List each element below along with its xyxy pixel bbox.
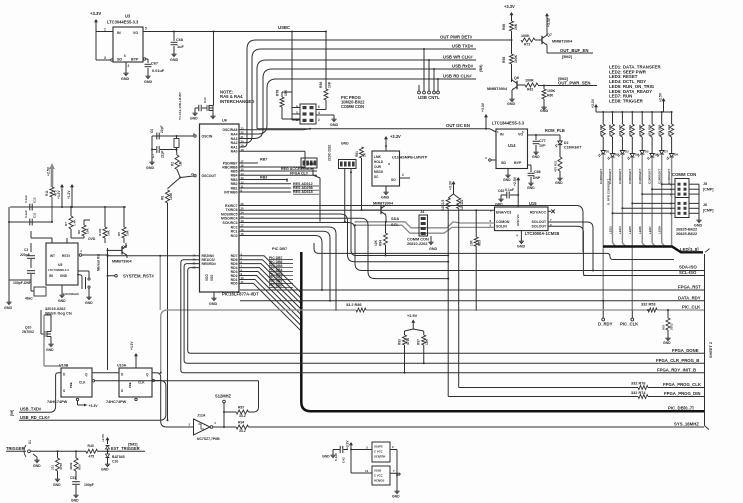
svg-text:HOLD: HOLD [374,160,384,164]
wire VO output [143,31,326,33]
svg-text:+3.3V: +3.3V [57,190,61,199]
ground Q6 emitter [507,90,515,106]
text PIC_DB label [668,405,694,410]
wires COMM CON right side [676,182,713,236]
svg-text:21: 21 [191,172,195,176]
wire left gnd rail [4,207,12,310]
svg-text:R11: R11 [45,190,49,196]
svg-text:U16PC: U16PC [374,445,383,449]
wire corner OUT_I2C [0,0,1,1]
svg-text:+3.3V: +3.3V [481,102,485,112]
wire RB3 stub [239,176,288,183]
svg-text:R66: R66 [502,24,506,30]
svg-text:475 R21: 475 R21 [554,160,558,172]
power +1.2V left [67,184,74,208]
svg-text:100pF-DNP: 100pF-DNP [13,281,32,285]
svg-text:D_RFB C190KEKT: D_RFB C190KEKT [607,179,611,205]
node S12MHZ [215,394,232,429]
svg-text:10K: 10K [425,338,429,345]
resistor pullup 10K U15 [470,210,482,311]
svg-text:0.1uF: 0.1uF [505,188,514,192]
wire OSC2 net [152,149,196,178]
svg-text:0.1uF: 0.1uF [24,195,28,203]
wire ENA [0,0,1,1]
transistor Q5 with cap [190,97,216,120]
wire SYS_16MHZ [249,422,705,428]
svg-text:33.2: 33.2 [239,414,246,418]
wire U13 pin2 [400,173,411,178]
svg-text:D8: D8 [674,153,678,157]
svg-text:332 R53: 332 R53 [641,303,656,307]
resistor R2 [171,150,183,170]
wire FPGA_RST [240,285,704,290]
resistor R55 2002 [662,310,674,345]
svg-text:WT: WT [50,254,55,258]
wire SYSTEM_RST# [107,248,200,370]
svg-text:LTC3000A-1CMS8: LTC3000A-1CMS8 [525,231,560,236]
resistor R21 475 [554,157,564,185]
svg-text:2: 2 [402,173,404,177]
svg-text:D5: D5 [645,150,649,154]
svg-text:6: 6 [318,105,320,109]
svg-text:C77: C77 [539,139,546,143]
svg-text:USB_RD_CLK#: USB_RD_CLK# [20,415,50,420]
power +3.3V dual pullup [448,180,459,198]
wire Q7 emitter OUT_BUF_EN [547,45,593,59]
svg-text:R93: R93 [398,339,402,345]
wire Q10 drain up [44,315,61,366]
svg-text:FPGA CL#: FPGA CL# [290,171,308,175]
resistor R62 100R [517,79,545,92]
text LED wire names [608,226,661,234]
svg-text:D2: D2 [564,141,568,145]
capacitor C11 [24,210,37,225]
svg-text:6: 6 [124,54,126,58]
svg-text:LED4: LED4 [618,226,622,234]
resistor R81 [355,147,367,210]
svg-text:GND: GND [555,181,563,185]
resistor R87 loop [224,381,259,418]
svg-text:26825-B622: 26825-B622 [676,228,697,232]
svg-text:SD: SD [117,58,122,62]
svg-text:VDD: VDD [205,274,209,281]
diode BAT54S top [106,446,110,452]
connector COMM CON J5/J6 [672,172,696,218]
connector 22SC-2262 A [301,158,317,168]
svg-text:22pF: 22pF [160,125,164,133]
svg-text:475 R26: 475 R26 [608,124,612,136]
power +2.5V thick [47,163,55,187]
svg-text:U5: U5 [58,263,62,267]
svg-text:26825-B622: 26825-B622 [676,232,697,236]
svg-text:10K1/2: 10K1/2 [460,199,464,210]
connector X1 TRIGGER [6,440,32,457]
svg-text:R7: R7 [64,222,68,226]
svg-text:RB6: RB6 [307,162,314,166]
svg-text:GND: GND [121,77,129,81]
svg-text:NC7SZ7,7P6B: NC7SZ7,7P6B [197,437,220,441]
svg-text:IN: IN [500,133,504,137]
svg-text:14: 14 [365,469,369,473]
transistor Q8 [107,243,133,264]
capacitor 100pF DNP [9,271,35,285]
wire FPGA_PROG_DIN [448,391,704,397]
svg-text:LED[3..8]: LED[3..8] [680,247,699,252]
svg-text:+3.3V: +3.3V [130,341,134,350]
capacitor C66 DNP [527,165,541,190]
text PIC PROG [341,95,365,109]
wire PIC PROG left pins [292,92,300,120]
connector J4 [407,210,437,251]
svg-text:RE0/RD#: RE0/RD# [202,262,216,266]
svg-text:GND: GND [209,302,217,306]
resistor R86 [346,303,366,312]
resistor R11 [45,187,58,223]
microcontroller U6 pin numbers [191,126,244,284]
svg-text:PIC DB7: PIC DB7 [272,247,287,251]
wire left rail 207 [10,206,126,208]
svg-text:FPGA_DONE: FPGA_DONE [672,348,699,353]
svg-text:100K: 100K [547,89,556,93]
power +2.5V LED rail [659,92,666,112]
svg-text:SCNTRK: SCNTRK [374,455,386,459]
resistor R100 [98,206,111,243]
wire RB6 stub [239,162,314,167]
resistor R58 [502,40,518,82]
svg-text:LED8: LED8 [658,226,662,234]
wire U5 rst out [79,249,108,256]
svg-text:RA0: RA0 [231,150,238,154]
svg-text:R8: R8 [161,196,165,200]
svg-text:VSS: VSS [210,274,214,281]
resistor R40 [86,444,98,459]
ground U5 [58,275,82,303]
wire Q6 collector [511,64,514,80]
svg-text:ENA/VC3: ENA/VC3 [496,211,511,215]
wire RB7 stub [239,158,267,164]
power +3.3V U14 [481,102,488,130]
wire U10B CLK loop [95,380,259,382]
capacitor C62 [495,188,518,207]
svg-text:PRE: PRE [69,382,73,388]
svg-text:SDA-ISO: SDA-ISO [679,264,697,269]
svg-text:OSCOUT: OSCOUT [202,174,217,178]
svg-text:C42: C42 [342,457,346,463]
svg-text:C66: C66 [534,170,541,174]
svg-text:R6: R6 [77,230,81,234]
node USB CNTL pins [418,91,440,100]
capacitor C6 [150,125,164,139]
svg-text:SCL-ISO: SCL-ISO [679,270,697,275]
svg-text:SC: SC [374,175,379,179]
svg-text:GND: GND [330,123,338,127]
svg-text:FPGA_PROG_CLK: FPGA_PROG_CLK [663,382,702,387]
svg-text:U10A: U10A [117,364,127,368]
svg-text:COMM CON: COMM CON [407,238,429,242]
svg-text:+1.2V: +1.2V [67,190,71,199]
capacitor C12 [24,195,37,210]
resistor R50 trig [69,451,82,480]
power +2.2V LED rail [591,98,598,112]
microcontroller U6 pin labels [202,128,238,286]
svg-text:J11A: J11A [197,414,206,418]
svg-text:R84: R84 [379,240,383,246]
capacitor C7 [151,146,165,158]
svg-text:+2.5V: +2.5V [101,433,105,442]
svg-text:Manual Rst: Manual Rst [96,253,100,271]
svg-text:GND: GND [392,495,400,499]
svg-text:GND: GND [170,58,178,62]
svg-text:10K: 10K [107,230,111,236]
svg-text:SOLIN: SOLIN [496,224,507,228]
svg-text:RC0: RC0 [231,234,238,238]
capacitor C42 [322,446,348,463]
svg-text:OUT_BUF_EN: OUT_BUF_EN [560,48,588,53]
svg-text:2N7002: 2N7002 [22,330,34,334]
wire mid vertical B [239,218,449,279]
svg-text:C190KEKT: C190KEKT [638,168,642,184]
wire U3 pin3 [96,56,113,61]
oscillator U16a [366,442,397,462]
wire RES AD318 [239,190,319,194]
wire REG ACCESS [239,167,317,171]
svg-text:100K: 100K [521,34,530,38]
svg-text:PIC_DB[0..7]: PIC_DB[0..7] [668,405,694,410]
svg-text:C190KEKT: C190KEKT [648,168,652,184]
svg-text:(5M): (5M) [479,64,483,72]
svg-text:SYSTEM_RST#: SYSTEM_RST# [123,274,154,279]
svg-text:475: 475 [89,455,95,459]
wire SCLOUT [351,172,449,256]
svg-text:USB CNTL: USB CNTL [418,95,440,100]
node VO junction C68 [173,31,175,33]
power +3.3V rail top-left [90,11,101,60]
svg-text:GND VC: GND VC [516,213,520,226]
wire PIC_CLK gray [160,256,704,374]
node VO junction [213,31,215,33]
resistor R73 100K [521,34,542,47]
wire RC4 [0,0,1,1]
svg-text:1uF: 1uF [539,144,546,148]
svg-text:USB_TXD#: USB_TXD# [20,407,42,412]
svg-text:C11: C11 [33,212,37,218]
svg-text:SOLOUT: SOLOUT [532,220,548,224]
svg-text:RB7: RB7 [260,158,267,162]
resistor R7 [64,206,77,238]
text EXT_TRIGGER [111,443,140,451]
svg-text:R87: R87 [238,406,244,410]
wire OUT_PWR_SEN [544,77,597,86]
resistor R97 [417,335,430,363]
svg-text:GND: GND [71,499,79,503]
svg-text:10K: 10K [514,23,518,30]
svg-text:HCMOS: HCMOS [374,479,384,483]
svg-text:BYP: BYP [131,58,139,62]
svg-text:R50: R50 [78,464,82,470]
svg-text:C12: C12 [33,197,37,203]
svg-text:RES AD318: RES AD318 [293,190,313,194]
svg-text:COMON: COMON [496,220,510,224]
wire boxB drops [344,169,352,223]
svg-text:U6: U6 [222,119,227,123]
bracket sheet2 [705,254,714,430]
svg-text:505: 505 [662,325,666,330]
wire SDA-ISO [679,264,697,269]
svg-text:221: 221 [51,465,55,470]
component flex box [25,280,46,301]
text D_RFB label [607,179,611,205]
power +3.3V U10A [130,341,138,368]
resistor R56 [319,81,332,100]
svg-text:R73: R73 [524,43,530,47]
svg-text:C190KEKT: C190KEKT [618,168,622,184]
svg-text:LTC734M08-3.3: LTC734M08-3.3 [48,268,69,272]
svg-text:10K1/3: 10K1/3 [441,199,445,210]
wire USB_TXD# [239,43,476,143]
svg-text:4750: 4750 [59,463,63,470]
capacitor C67 [143,58,165,84]
svg-text:1K: 1K [363,152,367,157]
flipflop U10B [47,364,98,409]
svg-text:CLK: CLK [79,381,86,385]
svg-text:D_RDY: D_RDY [598,322,613,327]
inverter U11A [189,414,221,442]
svg-text:GND: GND [33,464,41,468]
svg-text:C190KEKT: C190KEKT [628,168,632,184]
svg-text:C VCC: C VCC [374,474,383,478]
flipflop U10A [106,364,155,405]
svg-text:26810-2262: 26810-2262 [407,242,428,246]
capacitor C68 [170,32,184,63]
svg-text:220pF: 220pF [20,253,30,257]
power +2.5V U15 [513,176,520,207]
wire corner RA1 [0,0,1,1]
svg-text:C67: C67 [151,62,158,66]
svg-text:475 R33: 475 R33 [667,124,671,136]
svg-text:1M: 1M [179,161,183,166]
svg-text:FPGA_CLR_PROG_B: FPGA_CLR_PROG_B [656,358,699,363]
svg-text:MMBT3904: MMBT3904 [373,202,394,206]
wire DATA_RDY [240,295,704,300]
ground U16 [392,450,400,499]
svg-text:BAT54S: BAT54S [112,455,126,459]
svg-text:COMM CON: COMM CON [341,104,364,109]
resistor R21 trig [51,451,64,487]
svg-text:GND: GND [58,299,66,303]
wire FPGA_DONE [188,268,704,354]
resistor R93 [398,335,411,373]
svg-text:GND: GND [190,117,198,121]
svg-text:475 R30: 475 R30 [638,124,642,136]
switch Manual Rst [78,253,100,305]
dcdc U15 [490,201,560,236]
svg-text:RA4: RA4 [231,132,238,136]
wire U3 pin1 [96,28,113,32]
svg-text:SYS_16MHZ: SYS_16MHZ [674,422,699,427]
svg-text:R2: R2 [171,162,175,166]
svg-text:1uF: 1uF [177,45,184,49]
svg-text:2002: 2002 [670,323,674,330]
svg-text:0.01uF: 0.01uF [152,69,165,73]
svg-text:GND: GND [101,468,109,472]
wire RA5 diag [239,128,311,130]
svg-text:X1: X1 [28,440,32,444]
power +3.3V R66 [504,4,515,21]
svg-text:10K: 10K [470,239,474,246]
wire RC2 [239,227,337,311]
svg-text:SO: SO [391,178,396,182]
svg-text:GND: GND [507,102,515,106]
watchdog U5 [46,243,78,285]
svg-text:OSCIN: OSCIN [202,134,213,138]
svg-text:GND: GND [540,109,548,113]
connector 22SC-2262 B [328,142,357,169]
resistor R8 [161,170,182,422]
svg-text:MMBT3904: MMBT3904 [552,40,573,44]
power +2.5V trig [101,433,110,444]
svg-text:GND: GND [429,247,437,251]
wire RES AD258 [239,186,319,190]
svg-text:C190KEKT: C190KEKT [564,146,582,150]
svg-text:74HC74PW: 74HC74PW [47,400,68,404]
svg-text:LTC1844ES5-3.3: LTC1844ES5-3.3 [492,121,525,126]
wire OUT_I2C_EN [257,123,496,132]
svg-text:RST#: RST# [62,254,70,258]
svg-text:SCL: SCL [391,223,399,227]
wire RC6 [239,209,495,211]
svg-text:INT/RB0: INT/RB0 [224,190,237,194]
power +3.3V U13 [384,134,401,151]
wire boxA drops [239,151,320,222]
crystal Y1 [174,92,182,150]
svg-text:SCK/RC3: SCK/RC3 [223,221,238,225]
svg-text:GND: GND [85,301,93,305]
wire SDA gray [355,217,495,228]
svg-text:475 R27: 475 R27 [618,124,622,136]
svg-text:SD: SD [501,161,506,165]
svg-text:R78: R78 [276,90,280,96]
wire USB_RxD# [239,63,483,138]
svg-text:IN: IN [117,31,121,35]
svg-text:GND: GND [532,155,540,159]
svg-text:GND: GND [4,306,12,310]
svg-text:0.1uF: 0.1uF [334,453,338,461]
wire USBC drop left [291,32,293,93]
svg-text:2: 2 [128,64,130,68]
svg-text:SOLOUT: SOLOUT [532,224,548,228]
svg-text:10K: 10K [284,89,288,96]
svg-text:C62: C62 [498,189,504,193]
svg-text:C190KEKT: C190KEKT [599,168,603,184]
svg-text:R85: R85 [478,240,482,246]
svg-text:J5: J5 [703,182,707,186]
svg-text:RB3: RB3 [260,176,267,180]
svg-text:GND: GND [503,178,511,182]
svg-text:USB RD CLK#: USB RD CLK# [443,73,472,78]
svg-text:C190KEKT: C190KEKT [657,168,661,184]
svg-text:3: 3 [104,56,106,60]
svg-text:PIC_CLK: PIC_CLK [620,322,639,327]
svg-text:GND: GND [341,142,349,146]
wire USBC drop right [325,31,327,90]
svg-text:GND: GND [46,348,54,352]
wire USB_RD_CLK# [19,381,166,421]
svg-text:22SC-2262: 22SC-2262 [328,145,332,161]
wire left rail 222 [9,221,52,223]
svg-text:R56: R56 [319,82,323,88]
svg-text:[CMP]: [CMP] [703,188,713,192]
resistor R74 [638,395,648,399]
